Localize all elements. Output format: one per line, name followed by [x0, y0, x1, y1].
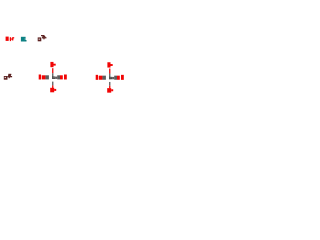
U2 right grey bar: [112, 77, 114, 79]
U2 power flag tab: [111, 64, 113, 66]
U1 body b glyph: [52, 76, 55, 79]
U2 left red terminal bar: [96, 75, 98, 80]
U1 left red terminal bar: [39, 75, 41, 80]
U1 top grey wire: [52, 73, 53, 76]
U2 top red wire: [109, 69, 110, 74]
U2 bottom red pad: [107, 88, 111, 93]
U2 right grey pin square: [114, 76, 117, 80]
U1 bottom red wire: [52, 85, 53, 88]
U1 left grey pin square: [45, 75, 49, 79]
U2 right red terminal bar: [121, 75, 124, 80]
U2 top grey wire: [109, 74, 110, 77]
U1 right grey pin square: [57, 75, 60, 79]
component U2 (right cross): [96, 62, 124, 92]
component icon T1 (teal chip): [21, 37, 27, 42]
node A red label block: [6, 37, 9, 41]
U2 power flag square: [107, 62, 110, 67]
U1 right red terminal bar: [64, 75, 67, 80]
U2 bottom red wire: [109, 86, 110, 89]
U1 right grey bar: [55, 77, 57, 79]
component icon D2 (maroon pad with arrow): [4, 74, 12, 80]
U2 bottom grey wire: [109, 82, 110, 86]
U1 bottom red pad: [50, 88, 54, 93]
U2 left red pad: [99, 76, 103, 80]
node A red H glyph: [10, 37, 14, 41]
U1 power flag square: [50, 62, 53, 67]
U2 right red pad: [117, 76, 120, 80]
U1 power flag tab: [54, 64, 56, 66]
U2 body b glyph: [109, 76, 112, 79]
U2 left grey pin square: [102, 76, 106, 80]
component icon D1 (maroon pad with arrow): [38, 35, 47, 41]
U1 top red wire: [52, 68, 53, 73]
U1 left red pad: [42, 75, 46, 79]
U1 bottom pad tab: [54, 89, 56, 91]
U1 bottom grey wire: [52, 82, 53, 86]
U1 right red pad: [60, 75, 63, 79]
U2 bottom pad tab: [111, 89, 113, 91]
